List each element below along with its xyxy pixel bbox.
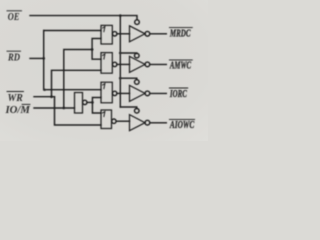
WR overline [7,91,24,93]
node IO/M label [4,105,30,116]
buffer B3 enable bubble [135,80,140,85]
gate G3 value label 1 [103,84,105,89]
inverter G5 body [75,93,83,114]
node junction IO/M branch [62,107,65,110]
wire inverted IO/M to gate G4 upper input [92,102,101,113]
gate G4 value label 1 [103,112,105,117]
wire inverter G5 output [87,101,92,103]
node MRDC label [169,28,190,39]
MRDC overline [169,27,192,29]
buffer B4 enable bubble [135,109,140,114]
wire AIOWC output [150,122,167,124]
wire IO/M input to inverter G5 [34,107,75,109]
NOR gate G3 output bubble [113,91,117,95]
NOR gate G2 output bubble [113,62,117,66]
node junction RD corner blob [43,88,46,91]
NOR gate G1 output bubble [113,32,117,36]
node WR label [8,92,23,104]
node junction IO/M feed split [91,48,94,51]
wire G1 output to buffer B1 [117,33,130,35]
svg-text:WR: WR [8,92,23,104]
buffer B2 output bubble [145,62,150,67]
NOR gate G1 body [101,25,112,44]
node junction inverted IO/M split [91,101,94,104]
wire WR up-branch to gate G2 lower input [52,70,102,96]
wire IO/M to gate G2 upper input [92,50,101,60]
node IORC label [169,89,187,100]
wire OE stub to buffer B2 enable [120,52,137,55]
node junction WR branch [50,95,53,98]
wire RD vertical branch [43,31,45,90]
tri-state buffer B3 body [130,85,146,101]
wire MRDC output [150,33,167,35]
wire OE horizontal to buffer B1 enable [30,16,137,20]
wire WR input [34,96,55,98]
NOR gate G4 body [101,110,112,129]
buffer B2 enable bubble [135,53,140,58]
OE overline [7,10,22,12]
wire G3 output to buffer B3 [117,92,130,94]
svg-text:OE: OE [8,11,20,23]
wire RD to gate G3 upper input [44,89,101,91]
wire G4 output to buffer B4 [116,120,129,122]
IORC overline [169,87,187,89]
wire G2 output to buffer B2 [117,63,130,65]
node junction OE vertical [119,14,122,17]
gate G2 value label 1 [103,54,105,59]
NOR gate G2 body [101,53,112,74]
svg-text:RD: RD [7,51,20,63]
svg-text:IO/M: IO/M [4,105,30,116]
RD overline [7,50,21,52]
node junction OE stub B2 [119,52,122,55]
svg-text:IORC: IORC [169,89,187,100]
wire OE stub to buffer B3 enable [120,78,137,79]
inverter G5 output bubble [83,100,87,104]
node junction OE stub B3 [119,77,122,80]
wire OE stub to buffer B4 enable [120,107,137,108]
IO/M overline over M [22,103,30,105]
buffer B1 enable bubble [135,20,140,25]
NOR gate G4 output bubble [112,119,116,123]
svg-text:MRDC: MRDC [169,28,190,39]
node AIOWC label [169,120,194,131]
AIOWC overline [169,118,194,120]
wire WR down-branch to gate G4 lower input [55,97,102,125]
svg-text:AIOWC: AIOWC [169,120,194,131]
node AMWC label [169,60,191,71]
wire IO/M up-branch [64,50,92,109]
node OE label [8,11,20,23]
wire RD to gate G1 upper input [44,30,101,32]
node junction RD branch [42,57,45,60]
svg-text:AMWC: AMWC [169,60,191,71]
tri-state buffer B4 body [130,115,146,131]
wire RD input [30,57,44,59]
tri-state buffer B2 body [130,56,146,72]
wire AMWC output [150,63,167,65]
NOR gate G3 body [101,82,112,103]
gate G1 value label 1 [103,27,105,32]
wire IO/M to gate G1 lower input [92,39,101,50]
tri-state buffer B1 body [130,26,146,42]
wire IORC output [150,92,167,94]
buffer B4 output bubble [145,120,150,125]
node RD label [7,51,20,63]
buffer B3 output bubble [145,91,150,96]
wire inverted IO/M to gate G3 lower input [92,98,101,103]
buffer B1 output bubble [145,31,150,36]
AMWC overline [169,59,192,61]
wire OE vertical distribution [119,16,121,107]
